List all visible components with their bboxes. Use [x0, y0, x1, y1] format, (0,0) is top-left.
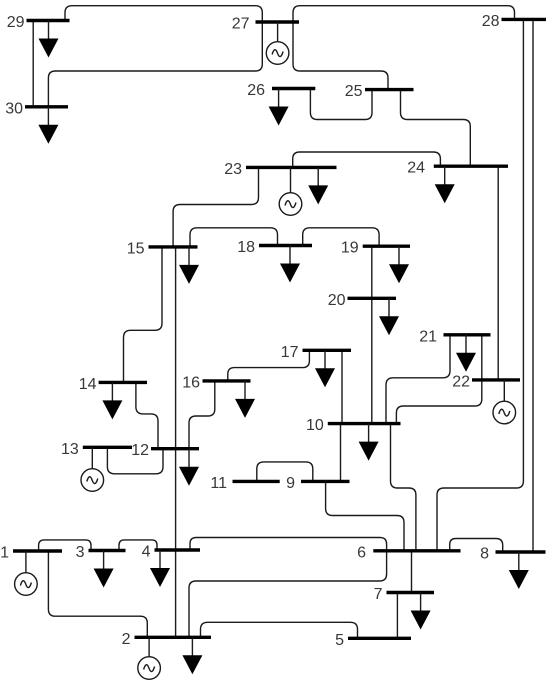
- svg-text:12: 12: [131, 442, 149, 459]
- svg-text:2: 2: [122, 631, 131, 648]
- bus 28 busbar: [502, 18, 547, 21]
- bus 15 busbar: [149, 245, 198, 248]
- svg-text:26: 26: [247, 82, 265, 99]
- svg-text:14: 14: [79, 376, 97, 393]
- load at bus 30: [38, 107, 58, 144]
- svg-text:1: 1: [0, 545, 9, 562]
- load at bus 3: [94, 551, 114, 588]
- svg-text:16: 16: [182, 374, 200, 391]
- wire 27-28: [293, 6, 515, 22]
- svg-text:21: 21: [419, 328, 437, 345]
- load at bus 29: [39, 21, 59, 58]
- load at bus 18: [280, 246, 300, 283]
- bus 18 busbar: [259, 244, 312, 247]
- wire 29-30: [32, 21, 34, 107]
- wire 25-27: [293, 22, 388, 90]
- bus 3 busbar: [89, 549, 126, 552]
- bus 5 busbar: [348, 637, 411, 640]
- wire 12-13: [107, 447, 163, 474]
- wire 10-20: [371, 298, 373, 423]
- svg-text:11: 11: [210, 475, 227, 492]
- svg-text:17: 17: [281, 344, 299, 361]
- wire 4-6: [190, 538, 387, 551]
- svg-text:15: 15: [127, 240, 145, 257]
- wire 24-25: [401, 90, 471, 167]
- wire 3-4: [119, 540, 157, 551]
- load at bus 2: [182, 637, 202, 674]
- load at bus 14: [102, 382, 122, 419]
- bus 1 busbar: [13, 549, 62, 552]
- wire 22-24: [497, 166, 499, 380]
- svg-text:20: 20: [328, 292, 346, 309]
- wire 2-4: [175, 550, 177, 637]
- wire 19-20: [371, 246, 373, 298]
- wire 10-17: [341, 350, 343, 423]
- wire 6-9: [326, 481, 404, 550]
- load at bus 21: [456, 335, 476, 372]
- wire 2-5: [201, 622, 358, 638]
- wire 25-26: [310, 89, 372, 120]
- svg-text:25: 25: [345, 83, 363, 100]
- generator at bus 2: [138, 637, 161, 679]
- wire 10-21: [386, 335, 450, 424]
- wire 15-18: [190, 228, 278, 247]
- svg-text:10: 10: [306, 417, 324, 434]
- wire 8-28: [532, 19, 534, 552]
- bus 26 busbar: [272, 87, 315, 90]
- bus 8 busbar: [496, 550, 546, 553]
- bus 17 busbar: [303, 349, 352, 352]
- bus 19 busbar: [363, 244, 410, 247]
- wire 27-30: [48, 22, 262, 107]
- generator at bus 27: [266, 22, 289, 64]
- wire 6-7: [411, 551, 413, 593]
- svg-text:24: 24: [407, 160, 425, 177]
- load at bus 4: [150, 550, 170, 587]
- load at bus 19: [389, 246, 409, 283]
- load at bus 8: [509, 552, 529, 589]
- wire 9-11: [257, 462, 313, 482]
- svg-text:23: 23: [224, 161, 242, 178]
- generator at bus 1: [15, 551, 38, 595]
- wire 27-29: [65, 6, 262, 22]
- bus 12 busbar: [151, 447, 199, 450]
- svg-text:29: 29: [7, 14, 25, 31]
- bus 25 busbar: [365, 88, 414, 91]
- generator at bus 23: [279, 167, 302, 215]
- wire 6-28: [437, 19, 523, 550]
- wire 21-22: [481, 335, 483, 380]
- load at bus 16: [235, 381, 255, 418]
- bus 22 busbar: [472, 378, 520, 381]
- bus 6 busbar: [373, 549, 460, 552]
- svg-text:18: 18: [237, 239, 255, 256]
- wire 6-10: [391, 424, 416, 551]
- bus 23 busbar: [246, 166, 337, 169]
- svg-text:13: 13: [61, 441, 79, 458]
- bus 10 busbar: [328, 422, 401, 425]
- load at bus 12: [179, 449, 199, 486]
- wire 16-17: [228, 350, 310, 381]
- bus 9 busbar: [301, 480, 350, 483]
- svg-text:19: 19: [341, 240, 359, 257]
- bus 4 busbar: [155, 548, 201, 551]
- wire 2-6: [189, 551, 387, 638]
- svg-text:22: 22: [452, 373, 470, 390]
- svg-text:28: 28: [482, 13, 500, 30]
- bus 29 busbar: [27, 19, 70, 22]
- svg-text:5: 5: [335, 632, 344, 649]
- bus 14 busbar: [99, 381, 147, 384]
- load at bus 15: [179, 247, 199, 284]
- wire 12-16: [189, 381, 215, 449]
- bus 16 busbar: [203, 379, 251, 382]
- bus 24 busbar: [434, 164, 508, 167]
- bus 7 busbar: [387, 591, 435, 594]
- bus 30 busbar: [25, 105, 68, 108]
- wire 6-8: [450, 539, 503, 553]
- wire 10-22: [396, 380, 481, 424]
- svg-text:4: 4: [142, 544, 151, 561]
- bus 21 busbar: [444, 333, 491, 336]
- wire 14-15: [124, 247, 163, 383]
- load at bus 23: [308, 167, 328, 204]
- generator at bus 13: [81, 447, 104, 491]
- wire 1-2: [48, 551, 147, 637]
- bus 13 busbar: [83, 446, 132, 449]
- load at bus 17: [315, 350, 335, 387]
- svg-text:9: 9: [286, 475, 295, 492]
- svg-text:7: 7: [374, 586, 383, 603]
- load at bus 7: [411, 593, 431, 630]
- wire 1-3: [39, 540, 91, 551]
- svg-text:6: 6: [357, 544, 366, 561]
- wire 5-7: [396, 593, 398, 639]
- wire 12-14: [136, 382, 158, 448]
- svg-text:30: 30: [5, 100, 23, 117]
- load at bus 24: [435, 166, 455, 203]
- wire 23-24: [293, 152, 441, 167]
- bus 20 busbar: [348, 297, 397, 300]
- wire 9-10: [340, 424, 342, 482]
- load at bus 20: [379, 298, 399, 335]
- bus 2 busbar: [135, 636, 212, 639]
- svg-text:3: 3: [76, 544, 85, 561]
- load at bus 26: [269, 89, 289, 126]
- load at bus 10: [359, 424, 379, 461]
- bus 27 busbar: [256, 20, 300, 23]
- wire 12-15: [175, 247, 177, 449]
- svg-text:8: 8: [480, 546, 489, 563]
- bus 11 busbar: [233, 480, 280, 483]
- generator at bus 22: [493, 380, 516, 424]
- svg-text:27: 27: [232, 16, 250, 33]
- wire 15-23: [173, 167, 258, 247]
- wire 18-19: [303, 228, 379, 246]
- wire 4-12: [175, 449, 177, 550]
